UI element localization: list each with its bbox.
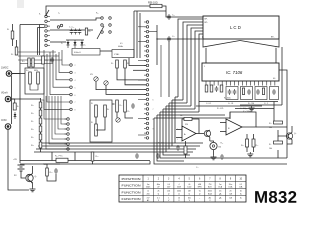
svg-text:BP₃: BP₃ bbox=[271, 37, 275, 39]
svg-text:20k: 20k bbox=[167, 191, 170, 193]
buzzer BZ1 bbox=[210, 142, 217, 149]
transistor Q3 bbox=[286, 133, 292, 139]
capacitor C12 bbox=[167, 15, 171, 17]
component box integrator group bbox=[241, 87, 253, 100]
capacitor C2 in box bbox=[233, 90, 237, 92]
wire nested bend 4 bbox=[166, 106, 193, 152]
svg-text:D₄: D₄ bbox=[61, 43, 63, 45]
capacitor C10 hanging bbox=[156, 154, 160, 156]
wire divider tap 3 bbox=[52, 96, 67, 139]
svg-text:R₉: R₉ bbox=[91, 122, 93, 124]
svg-text:POSITION: POSITION bbox=[122, 177, 141, 181]
capacitor C5 in box bbox=[256, 90, 260, 92]
trimmer capacitor VR2 bbox=[104, 81, 108, 85]
wire colA left h1 bbox=[20, 24, 45, 26]
wire diode top rail bbox=[66, 39, 84, 41]
capacitor C18 bbox=[131, 104, 135, 106]
wire LCD bus right slant bbox=[240, 39, 279, 47]
svg-text:COM: COM bbox=[1, 120, 6, 122]
svg-text:200: 200 bbox=[147, 193, 150, 195]
resistor R5 mesh bbox=[42, 56, 45, 64]
resistor R28 mesh bbox=[28, 58, 30, 67]
svg-text:200m: 200m bbox=[146, 187, 151, 189]
trimmer capacitor VR3 bbox=[116, 118, 120, 122]
resistor R10 bbox=[116, 100, 119, 112]
switch lever arrow top bbox=[46, 10, 49, 15]
wire mesh h1 bbox=[175, 96, 178, 98]
resistor R12 divider bbox=[39, 102, 42, 108]
wire box internals 2 bbox=[30, 84, 38, 90]
wire R1 leads bbox=[12, 24, 14, 31]
wire LCD bus left slant bbox=[203, 39, 240, 47]
wire trimmer to wafer c bbox=[96, 86, 146, 90]
capacitor C19 bbox=[54, 169, 58, 171]
resistor R1 top left bbox=[11, 31, 14, 39]
wire mesh top h a bbox=[18, 51, 56, 53]
wire mesh top h c bbox=[18, 59, 62, 61]
svg-text:4: 4 bbox=[75, 80, 76, 82]
wire bus drop b bbox=[74, 152, 76, 161]
switch contact pair S3b bbox=[57, 26, 60, 29]
wire stubs from wafer to mesh bbox=[138, 26, 146, 28]
capacitor C13 hanging bbox=[220, 155, 224, 157]
wire Q3 collector bbox=[291, 126, 293, 133]
wire long bus y152 bbox=[34, 151, 166, 153]
svg-text:FUNCTION: FUNCTION bbox=[122, 190, 141, 194]
table column lines bbox=[142, 175, 144, 202]
wire bus below components 2 bbox=[196, 105, 262, 107]
wire colA left h2 bbox=[38, 27, 45, 29]
wire wafer to v157 bbox=[149, 31, 157, 33]
wire battery drop bbox=[19, 160, 21, 163]
resistor R26 100ohm bbox=[91, 152, 94, 161]
wire top supply rail bbox=[46, 6, 150, 16]
resistor R32 bbox=[184, 146, 187, 154]
wire mesh h6 bbox=[160, 111, 199, 113]
svg-text:R₁₀: R₁₀ bbox=[120, 105, 123, 107]
wire cluster to wafer b bbox=[125, 75, 146, 85]
resistor R25 bbox=[46, 168, 49, 176]
svg-text:200k: 200k bbox=[177, 191, 181, 193]
wire R2 lead bbox=[16, 40, 18, 47]
svg-text:FUNCTION: FUNCTION bbox=[122, 197, 141, 201]
svg-text:C₂₂: C₂₂ bbox=[196, 167, 199, 169]
wire box to wafer e bbox=[133, 69, 146, 71]
svg-text:VΩmA: VΩmA bbox=[1, 92, 8, 95]
resistor R15 divider bbox=[39, 126, 42, 132]
wire trimmer leads bbox=[95, 81, 97, 86]
svg-text:0.1: 0.1 bbox=[157, 197, 159, 199]
wire mid rail y158 bbox=[187, 157, 287, 159]
op-amp IC U1 ICL7106 converter bbox=[202, 63, 279, 81]
wire jack bus vertical bbox=[11, 76, 13, 124]
svg-text:R₁₆: R₁₆ bbox=[31, 137, 34, 139]
wire divider tap 5 bbox=[58, 96, 67, 129]
wire mesh h4 bbox=[166, 105, 191, 107]
wire bus y164 right bbox=[93, 161, 151, 164]
wire long bus y146 bbox=[38, 145, 172, 147]
resistor R24 PTC bbox=[56, 158, 68, 162]
wire left vertical feed bbox=[156, 25, 158, 65]
capacitor C6 in box bbox=[272, 90, 276, 92]
component box range resistors bbox=[25, 68, 44, 94]
capacitor C15 row bbox=[74, 30, 78, 32]
wire nested bend 2 bbox=[172, 100, 200, 146]
wire U3A inputs bbox=[176, 129, 182, 131]
svg-text:IC. 7106: IC. 7106 bbox=[226, 70, 243, 75]
svg-text:7: 7 bbox=[75, 102, 76, 104]
wire colA vertical down a bbox=[37, 28, 39, 56]
wire nested bend 7 bbox=[157, 115, 184, 161]
svg-text:C₁₄C₁₅: C₁₄C₁₅ bbox=[69, 27, 75, 29]
wire trimmer to wafer d bbox=[106, 90, 146, 94]
svg-text:R₂₈: R₂₈ bbox=[22, 61, 25, 63]
resistor R11 bbox=[124, 100, 127, 112]
wire cluster v129 bbox=[129, 58, 146, 66]
switch contact grid S3 bbox=[101, 17, 104, 20]
svg-text:40kHz: 40kHz bbox=[118, 46, 123, 48]
svg-text:100: 100 bbox=[188, 197, 191, 199]
svg-text:Q₃: Q₃ bbox=[294, 133, 296, 135]
resistor R13 divider bbox=[39, 110, 42, 116]
svg-text:750: 750 bbox=[208, 184, 211, 186]
wire C11 drop to mesh bbox=[168, 41, 170, 97]
resistor R18 below IC bbox=[210, 85, 213, 92]
svg-text:5: 5 bbox=[75, 87, 76, 89]
wire divider tap 2 bbox=[49, 96, 67, 144]
svg-text:L C D: L C D bbox=[230, 25, 241, 30]
wire mesh top h b bbox=[18, 55, 59, 57]
wire bus left drop to IC bbox=[205, 48, 207, 63]
svg-text:20m: 20m bbox=[229, 184, 233, 186]
wire Q2 emitter bbox=[209, 137, 211, 141]
svg-text:R₃₄: R₃₄ bbox=[256, 145, 259, 147]
svg-text:VR₁: VR₁ bbox=[90, 74, 93, 76]
resistor R17 below IC bbox=[205, 85, 208, 92]
capacitor C4 in box bbox=[247, 90, 251, 92]
svg-text:8: 8 bbox=[75, 110, 76, 112]
capacitor C14 row bbox=[70, 30, 74, 32]
svg-text:10: 10 bbox=[240, 191, 242, 193]
wire bundle segment e bbox=[195, 31, 203, 109]
svg-text:2k: 2k bbox=[157, 191, 159, 193]
resistor R31 feedback bbox=[184, 118, 192, 121]
svg-text:C₁₁: C₁₁ bbox=[172, 36, 175, 38]
wire U3B output loop bbox=[230, 112, 256, 127]
range table frame bbox=[119, 175, 246, 202]
node junction at 157,39 bbox=[157, 39, 158, 40]
resistor R29 mesh bbox=[32, 58, 34, 67]
svg-text:0.2: 0.2 bbox=[240, 184, 242, 186]
svg-text:40m: 40m bbox=[157, 184, 161, 186]
ground below C5 bbox=[251, 106, 253, 108]
svg-text:R₃₅ 10k: R₃₅ 10k bbox=[158, 143, 164, 145]
wire opamp bottom rail bbox=[181, 163, 287, 165]
svg-text:1000: 1000 bbox=[187, 187, 191, 189]
svg-text:0.4: 0.4 bbox=[167, 184, 169, 186]
svg-text:R₅: R₅ bbox=[46, 60, 48, 62]
wire mesh h3 bbox=[169, 102, 187, 104]
wire 10A to mesh bbox=[12, 73, 20, 75]
svg-text:R₁₅: R₁₅ bbox=[31, 129, 34, 131]
ground below R33 bbox=[249, 152, 251, 154]
wire VohmmA to fuse bbox=[11, 99, 15, 103]
scan artifact gray patch bbox=[17, 0, 24, 8]
rotary switch wafer S2 column bbox=[45, 15, 48, 18]
resistor R56 10ohm bbox=[150, 4, 162, 7]
wire mesh top h d bbox=[20, 63, 53, 65]
rotary switch wafer S4 column B bbox=[70, 64, 73, 67]
diode D4 input bbox=[14, 112, 16, 119]
jack VohmmA terminal bbox=[5, 96, 11, 102]
model number M832 bbox=[255, 191, 296, 203]
resistor R9 in box bbox=[95, 124, 98, 136]
wire R56 to LCD backplane bbox=[162, 6, 203, 17]
wire IC right pin to rail bbox=[279, 70, 287, 85]
svg-text:R₈: R₈ bbox=[107, 109, 109, 111]
resistor R14 divider bbox=[39, 118, 42, 124]
fuse F1 bbox=[13, 103, 16, 110]
wire top bend to rail bbox=[134, 10, 166, 12]
wire divider chain vertical bbox=[40, 98, 42, 152]
resistor R33 bbox=[246, 139, 249, 147]
wire bundle segment d bbox=[191, 28, 203, 106]
wire bundle segment a bbox=[178, 19, 203, 97]
svg-text:−: − bbox=[177, 128, 178, 130]
wire jack to box bbox=[12, 73, 25, 75]
svg-text:R₁₃: R₁₃ bbox=[31, 113, 34, 115]
jack COM terminal bbox=[5, 124, 11, 130]
svg-text:R₄₀: R₄₀ bbox=[269, 123, 272, 125]
wire battery to transistor bbox=[21, 171, 25, 178]
svg-text:+9V: +9V bbox=[13, 159, 17, 161]
resistor R27 vertical bbox=[85, 28, 87, 35]
svg-text:R₂₄ PTC: R₂₄ PTC bbox=[55, 156, 63, 158]
diode D2 bbox=[74, 40, 76, 48]
resistor R34 bbox=[252, 139, 255, 147]
svg-text:R₄: R₄ bbox=[127, 63, 129, 65]
wire nested bend 8 bbox=[154, 118, 181, 164]
svg-text:BP₁: BP₁ bbox=[205, 19, 209, 21]
svg-text:882k: 882k bbox=[34, 70, 38, 72]
resistor R4 bbox=[124, 60, 127, 68]
component box oscillator group bbox=[226, 87, 238, 100]
wire U3A output bbox=[196, 133, 204, 135]
svg-text:0.5: 0.5 bbox=[120, 43, 123, 45]
wire nested bend 1 bbox=[175, 97, 203, 143]
wire divider tap 7 bbox=[41, 100, 67, 119]
capacitor C3 below IC bbox=[215, 87, 219, 89]
wire bundle segment c bbox=[187, 25, 203, 103]
resistor R23 divider bbox=[39, 142, 42, 148]
svg-text:R₃: R₃ bbox=[111, 63, 113, 65]
resistor R7 in box bbox=[95, 105, 98, 117]
svg-text:R₂₇: R₂₇ bbox=[89, 31, 92, 33]
resistor R21 in box bbox=[262, 88, 264, 95]
resistor R3 bbox=[116, 60, 119, 68]
trimmer capacitor VR1 bbox=[94, 77, 98, 81]
resistor R16 divider bbox=[39, 134, 42, 140]
svg-text:R₁₁: R₁₁ bbox=[128, 111, 131, 113]
ground below buzzer bbox=[213, 155, 215, 157]
wire U3B inputs bbox=[220, 122, 226, 124]
wire bus below components bbox=[199, 101, 278, 103]
resistor R40 bbox=[274, 121, 283, 124]
wire vertical v137 bbox=[136, 11, 138, 58]
wire divider tap 1 bbox=[46, 96, 67, 149]
wire buzzer leads bbox=[210, 141, 214, 142]
svg-text:FUNCTION: FUNCTION bbox=[122, 184, 141, 188]
svg-text:9: 9 bbox=[153, 128, 154, 130]
svg-text:–: – bbox=[199, 197, 200, 199]
switch lever diagonal bbox=[97, 26, 104, 39]
wire Q3 emitter down bbox=[287, 140, 292, 145]
resistor R20 in box bbox=[242, 88, 244, 95]
wire right of box bbox=[116, 112, 118, 118]
component box input protection bbox=[90, 100, 112, 142]
LCD display module bbox=[203, 16, 279, 39]
wire long bus y149 bbox=[36, 148, 169, 150]
svg-text:200m: 200m bbox=[208, 191, 213, 193]
svg-text:R₁: R₁ bbox=[7, 29, 9, 31]
svg-text:R₁₉ 47k: R₁₉ 47k bbox=[217, 108, 223, 110]
wire R25 C19 rail bbox=[46, 164, 48, 168]
wire bundle segment b bbox=[183, 22, 203, 100]
capacitor C11 100p bbox=[167, 37, 171, 39]
svg-text:6: 6 bbox=[153, 100, 154, 102]
svg-text:10ADC: 10ADC bbox=[1, 67, 9, 70]
svg-text:R₃₀: R₃₀ bbox=[26, 70, 29, 72]
wire R26 bottom to bus bbox=[20, 161, 93, 164]
resistor R19 below IC bbox=[220, 85, 223, 92]
svg-text:F₁: F₁ bbox=[17, 106, 19, 108]
wire bundle segment f bbox=[199, 34, 203, 112]
svg-text:Q₁: Q₁ bbox=[35, 176, 38, 178]
transistor Q1 bbox=[26, 174, 33, 181]
jack 10ADC terminal bbox=[6, 71, 12, 77]
wire PTC to right bbox=[68, 160, 150, 162]
ground below Q1 bbox=[32, 187, 34, 189]
svg-text:C₃: C₃ bbox=[58, 13, 60, 15]
svg-text:XTAL: XTAL bbox=[114, 53, 120, 56]
svg-text:C₈ .01: C₈ .01 bbox=[228, 103, 233, 105]
wire R40 to base bbox=[278, 130, 287, 136]
wire colA vertical down c bbox=[19, 25, 21, 53]
component box crystal bbox=[112, 50, 134, 58]
svg-text:324: 324 bbox=[185, 124, 188, 126]
wire colA vertical down b bbox=[39, 25, 41, 56]
component box resonator bbox=[72, 49, 100, 56]
wire mesh h2 bbox=[172, 99, 183, 101]
IC bottom pin ticks bbox=[205, 81, 207, 86]
resistor R2A in box bbox=[29, 72, 32, 84]
svg-text:40: 40 bbox=[188, 184, 190, 186]
svg-text:10k: 10k bbox=[269, 148, 272, 150]
resistor R8 in box bbox=[104, 105, 107, 117]
wire grid feeds bbox=[50, 18, 101, 20]
svg-text:R₂: R₂ bbox=[11, 54, 13, 56]
svg-text:8: 8 bbox=[153, 119, 154, 121]
svg-text:R₂₅: R₂₅ bbox=[50, 172, 53, 174]
component box auto-zero group bbox=[270, 87, 279, 100]
wire mesh h5 bbox=[163, 108, 195, 110]
wire vertical v134 bbox=[133, 11, 135, 58]
capacitor C20 bbox=[176, 146, 180, 148]
svg-text:Vᵣₑғ 100mV: Vᵣₑғ 100mV bbox=[243, 111, 253, 113]
wire v161 drop bbox=[160, 45, 162, 97]
wire mesh h8 bbox=[154, 112, 230, 118]
svg-text:400mV: 400mV bbox=[74, 52, 81, 54]
wire cluster to wafer a bbox=[117, 75, 146, 80]
table row lines bbox=[119, 181, 246, 183]
wire VohmmA jack to divider bbox=[11, 98, 41, 100]
resistor R2B in box bbox=[37, 72, 40, 84]
svg-text:R₂₆: R₂₆ bbox=[96, 156, 99, 158]
wire long bus y143 bbox=[40, 142, 175, 144]
wire bus drop a bbox=[51, 152, 53, 161]
wire divider tap 6 bbox=[61, 96, 67, 124]
svg-text:R₃₁: R₃₁ bbox=[180, 115, 183, 117]
diode D3 bbox=[81, 40, 83, 48]
wire R33 R34 leads bbox=[246, 134, 248, 139]
svg-text:C₁₂: C₁₂ bbox=[172, 15, 175, 17]
svg-text:10: 10 bbox=[178, 197, 180, 199]
wire backplane lower bbox=[157, 38, 203, 40]
svg-text:4: 4 bbox=[179, 184, 180, 186]
capacitor C17 mesh bbox=[50, 58, 54, 60]
wire box to grid bbox=[100, 50, 112, 52]
wire box internals bbox=[95, 117, 97, 124]
svg-text:R₇: R₇ bbox=[91, 103, 93, 105]
svg-text:3: 3 bbox=[75, 73, 76, 75]
wire bundle segment g bbox=[202, 36, 203, 38]
svg-text:R₂₅100k: R₂₅100k bbox=[224, 98, 231, 100]
component box reference group bbox=[255, 87, 267, 100]
wire bus right drop to IC bbox=[275, 48, 277, 63]
svg-text:7: 7 bbox=[153, 109, 154, 111]
wire COM down left edge bbox=[8, 129, 29, 190]
svg-text:R₁₂: R₁₂ bbox=[31, 105, 34, 107]
diode D1 bbox=[67, 40, 69, 48]
rotary switch wafer S1 contact column bbox=[146, 21, 149, 24]
svg-text:1: 1 bbox=[168, 197, 169, 199]
wire mesh h7 bbox=[157, 114, 225, 116]
svg-text:R₃₆: R₃₆ bbox=[221, 143, 224, 145]
wire R32 leads bbox=[185, 141, 187, 146]
svg-text:6: 6 bbox=[75, 95, 76, 97]
wire right rail from bus bbox=[286, 85, 288, 158]
wire nested bend 3 bbox=[169, 103, 196, 149]
svg-text:BP₀: BP₀ bbox=[205, 22, 209, 24]
svg-text:R56 10Ω: R56 10Ω bbox=[148, 1, 158, 4]
wire mesh left v20 bbox=[19, 52, 21, 160]
wire Q1 emitter down bbox=[32, 183, 34, 188]
wire vertical v140 bbox=[139, 13, 141, 58]
wire y108 link bbox=[235, 108, 274, 110]
wire PTC rail bbox=[20, 160, 56, 162]
wire nested bend 6 bbox=[160, 112, 187, 158]
wire y105 link bbox=[240, 104, 282, 106]
capacitor C16 row bbox=[78, 30, 82, 32]
wire divider tap 4 bbox=[55, 96, 67, 134]
wire nested bend 5 bbox=[163, 109, 190, 155]
svg-text:R₂₃: R₂₃ bbox=[31, 145, 34, 147]
resistor R2 top left bbox=[15, 47, 18, 55]
transistor Q2 bbox=[204, 130, 210, 136]
op-amp U3B LM324 bbox=[226, 119, 242, 135]
wire opamp loop to rail bbox=[256, 126, 287, 128]
wire cluster v bbox=[116, 68, 118, 75]
